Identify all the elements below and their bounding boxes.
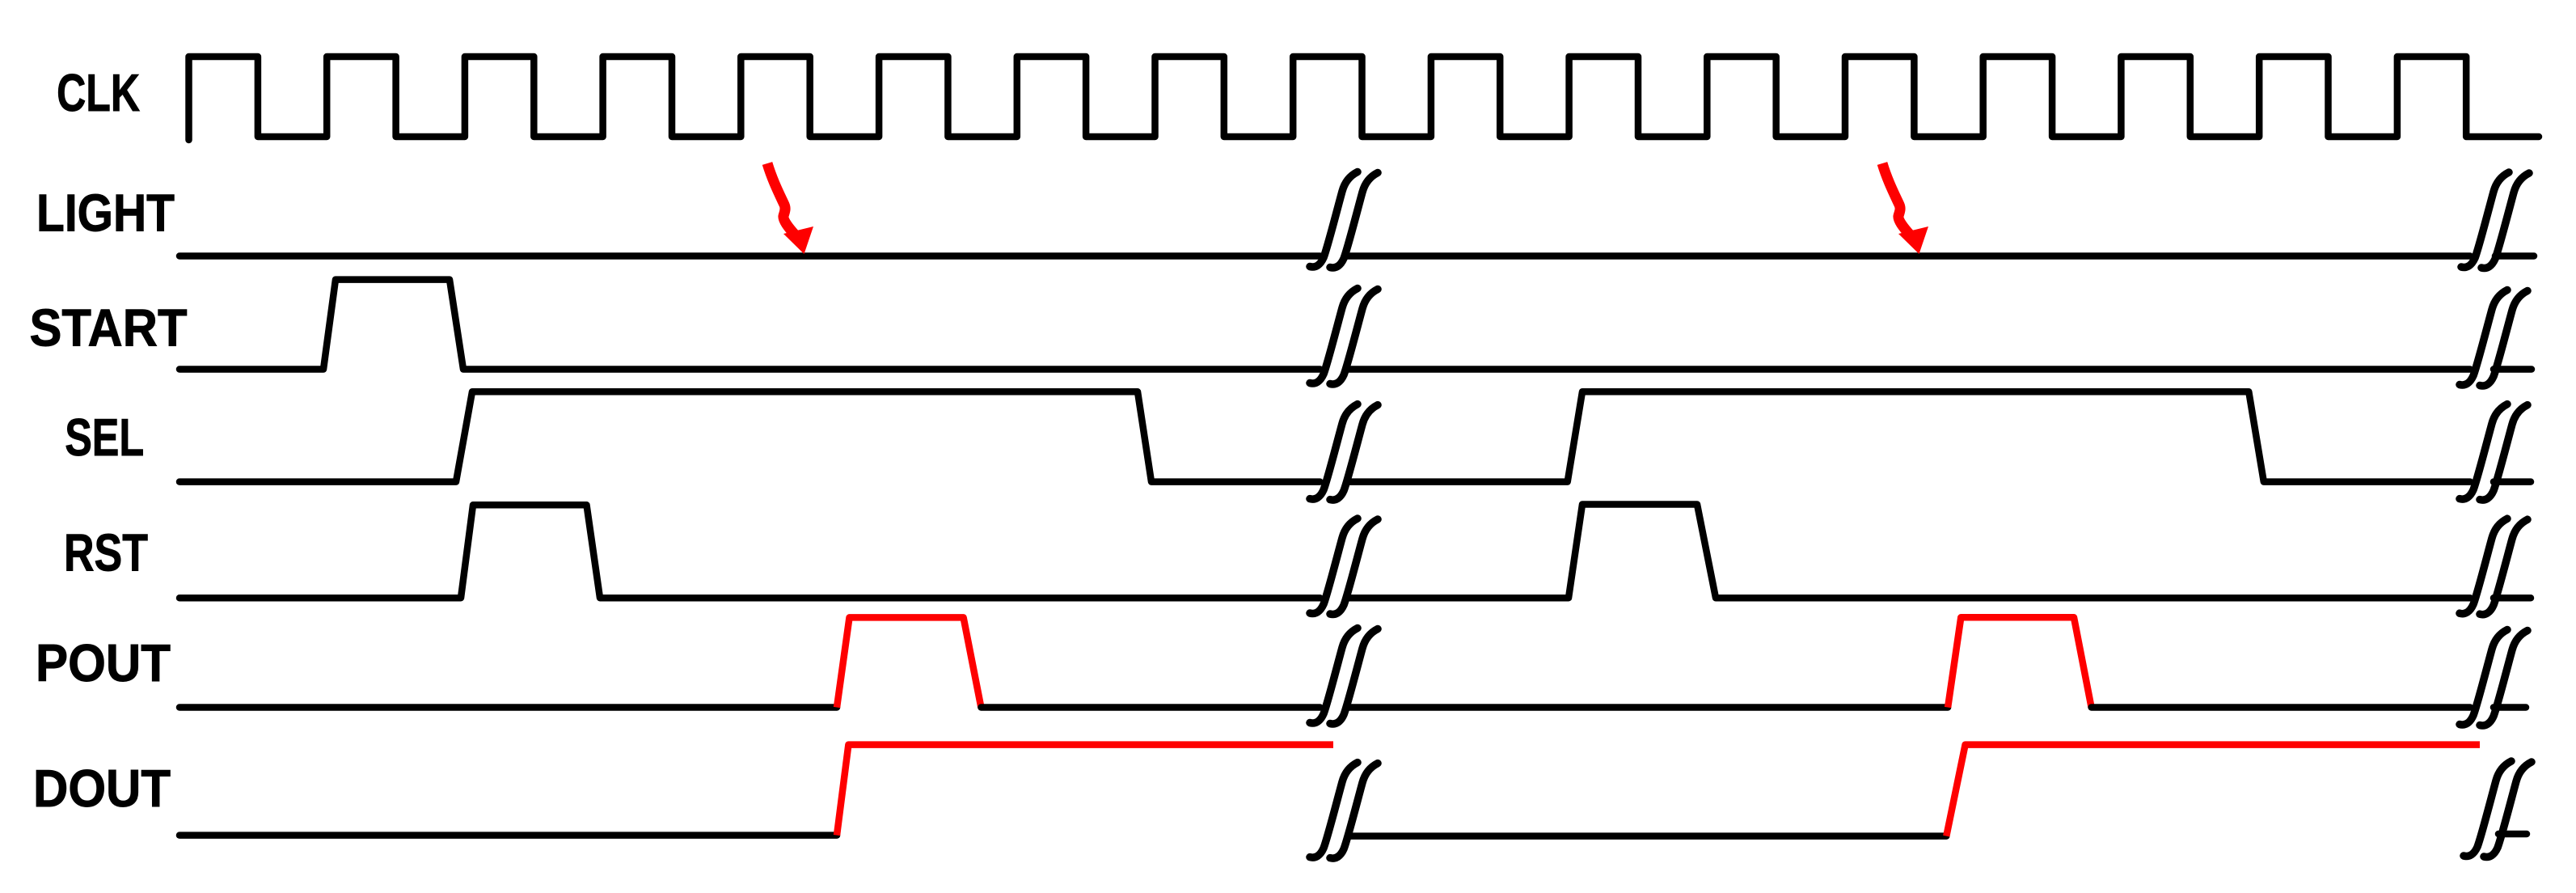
LIGHT wire right segment [1347,252,2470,260]
DOUT wire low left [179,832,837,839]
START wire right stub [2494,366,2532,373]
red arrow 2 head [1898,226,1928,254]
START right break mark [2460,290,2527,387]
svg-text:RST: RST [64,523,148,582]
svg-text:START: START [30,298,188,358]
LIGHT mid break mark [1310,172,1378,269]
SEL waveform wire second pulse [1347,391,2470,481]
DOUT mid break mark [1310,763,1378,859]
SEL wire right stub [2494,478,2531,485]
POUT wire low left [179,704,837,711]
DOUT wire right stub [2498,831,2527,838]
svg-text:SEL: SEL [65,408,144,467]
POUT mid break mark [1310,628,1378,725]
svg-text:DOUT: DOUT [33,759,171,818]
DOUT right break mark [2464,761,2532,857]
SEL waveform wire first pulse [179,391,1320,481]
POUT wire low middle [981,704,1320,711]
START mid break mark [1310,289,1378,385]
red arrow 1 head [783,226,813,254]
DOUT red rise and high 1 [837,745,1333,836]
RST wire right stub [2494,595,2531,602]
POUT red pulse 2 [1948,617,2092,707]
svg-text:CLK: CLK [57,63,140,122]
POUT right break mark [2460,630,2527,726]
svg-text:POUT: POUT [36,633,171,692]
red arrow 1 tail [767,163,795,235]
LIGHT right break mark [2461,172,2529,269]
POUT red pulse 1 [837,617,981,707]
DOUT wire low after break [1350,832,1946,840]
LIGHT wire right stub [2495,252,2534,260]
svg-text:LIGHT: LIGHT [36,184,175,243]
POUT wire right stub [2494,704,2526,711]
red arrow 2 tail [1882,163,1910,235]
RST mid break mark [1310,518,1378,615]
START waveform wire [179,280,1320,370]
RST waveform wire first pulse [179,505,1320,598]
RST right break mark [2460,518,2527,615]
LIGHT wire left segment [179,252,1320,260]
SEL mid break mark [1310,404,1378,501]
RST waveform wire second pulse [1347,505,2470,599]
POUT wire low after break [1347,704,1948,711]
POUT wire low right [2092,704,2470,711]
SEL right break mark [2460,404,2527,501]
CLK waveform wire [189,57,2540,140]
START wire right segment [1347,366,2470,373]
DOUT red rise and high 2 [1946,745,2480,836]
